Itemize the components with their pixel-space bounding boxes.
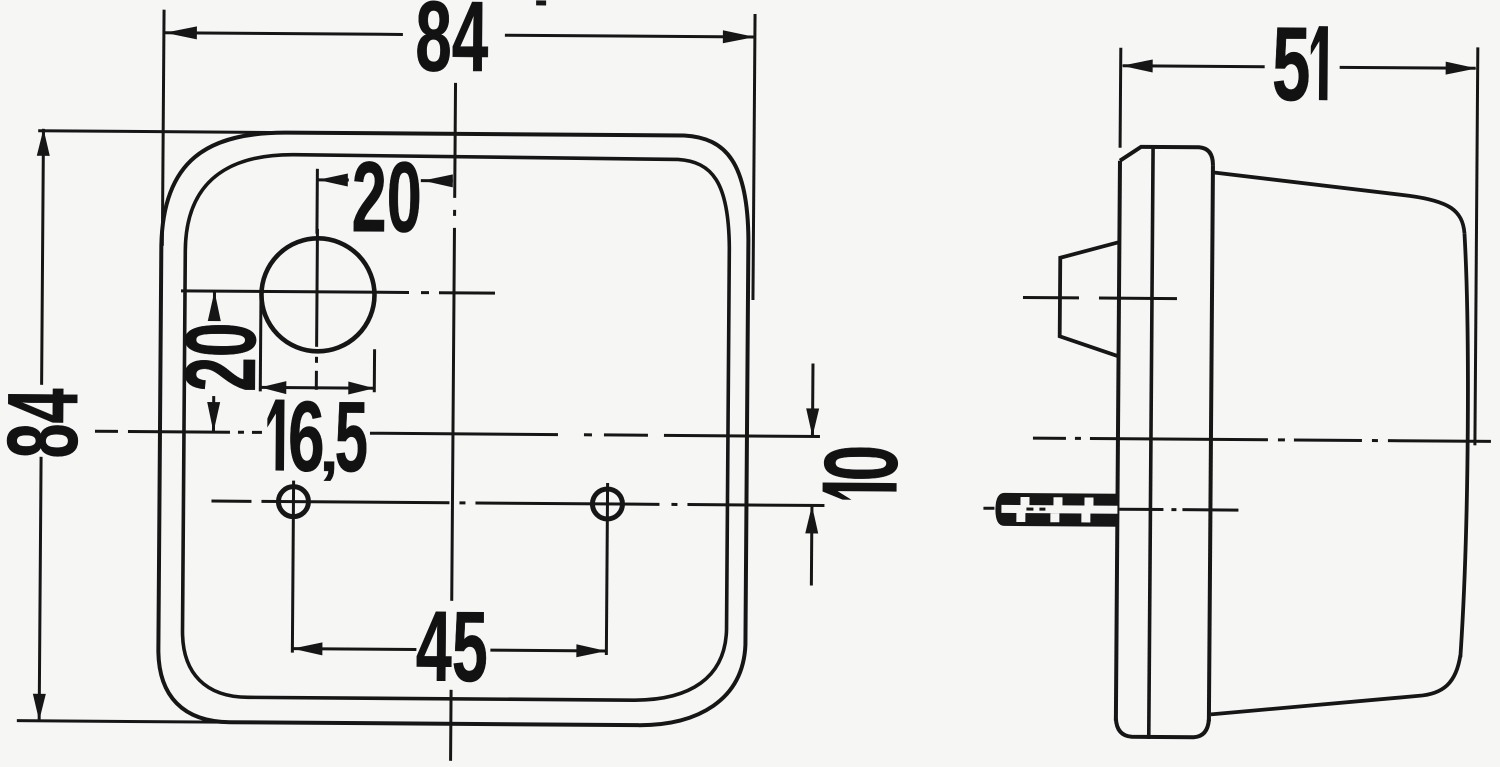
dimension 20 horizontal: extension line xyxy=(315,169,318,234)
dimension 45: dimension line xyxy=(292,649,606,651)
dimension 51: left extension line xyxy=(1119,48,1123,148)
side view main horizontal centerline xyxy=(1033,438,1491,441)
svg-text:5: 5 xyxy=(334,381,368,493)
lamp front view: outer lens outline xyxy=(158,132,749,726)
front view vertical centerline xyxy=(451,83,456,761)
dimension 20 horizontal: dimension line xyxy=(318,178,453,182)
side view: housing/lens joint vertical line xyxy=(1209,165,1213,721)
side view: plate top chamfer and top edge xyxy=(1120,147,1213,166)
stud thread white notch top 3 xyxy=(1084,497,1093,506)
bulb hole circle xyxy=(261,238,375,352)
dimension 51: dimension line xyxy=(1123,66,1476,69)
screw holes horizontal centerline xyxy=(211,501,824,505)
dimension 20 vertical: dimension line xyxy=(213,291,214,432)
side view: mounting plate back edge xyxy=(1116,161,1120,721)
dimension 20 vertical: up arrow xyxy=(208,291,221,321)
svg-text:0: 0 xyxy=(803,444,919,481)
side view: lens front face xyxy=(1460,233,1469,657)
stud thread white notch bottom 3 xyxy=(1081,513,1090,522)
side view: bulb holder centerline xyxy=(1023,297,1177,298)
bulb hole vertical centerline xyxy=(316,229,317,390)
dimension 84 top: left arrow xyxy=(165,26,197,39)
left screw hole xyxy=(278,487,308,517)
svg-text:84: 84 xyxy=(415,0,489,93)
front view horizontal centerline xyxy=(95,431,820,436)
dimension 51: left arrow xyxy=(1122,59,1153,72)
dimension 10: lower dimension line xyxy=(810,505,814,585)
stray scan speck xyxy=(536,0,546,5)
svg-text:20: 20 xyxy=(351,141,422,254)
dimension 84 left: dimension line xyxy=(39,129,43,721)
side view: plate inner vertical line xyxy=(1149,147,1153,739)
dimension 84 left: top extension line xyxy=(38,131,302,133)
dimension 16,5: right extension line xyxy=(373,349,376,392)
lamp front view: inner lens outline xyxy=(182,154,730,701)
dimension 16,5: right arrow xyxy=(348,382,374,395)
dimension 10: down arrow xyxy=(806,408,819,436)
dimension 84 left: bottom extension line xyxy=(17,721,238,723)
right screw hole vertical line / 45 extension xyxy=(606,483,607,655)
right screw hole xyxy=(592,489,622,519)
svg-text:84: 84 xyxy=(0,388,99,459)
stud thread white notch bottom 2 xyxy=(1050,513,1059,522)
stud thread white notch bottom 1 xyxy=(1016,513,1025,522)
stud centerline black dashes inside band xyxy=(1026,508,1045,511)
stud thread white notch top 1 xyxy=(1020,497,1029,506)
dimension 10: text (rotated) xyxy=(803,444,919,500)
dimension 10: up arrow xyxy=(805,505,818,533)
dimension 84 top: right extension line xyxy=(753,14,755,300)
dimension 51: right arrow xyxy=(1446,62,1477,75)
side view: bulb holder trapezoid xyxy=(1060,242,1119,356)
side view: plate bottom edge xyxy=(1116,719,1209,738)
dimension 84 left: up arrow xyxy=(37,129,50,156)
stud thread white band xyxy=(1001,505,1117,514)
svg-text:45: 45 xyxy=(415,591,488,704)
dimension 84 top: left extension line xyxy=(162,10,164,246)
stud centerline right xyxy=(1119,508,1238,512)
dimension 45: left arrow xyxy=(292,642,322,655)
dimension 16,5: left extension line xyxy=(259,296,263,391)
dimension 45: right arrow xyxy=(576,644,606,657)
dimension 20 vertical: down arrow xyxy=(207,402,220,432)
dimension 10: upper dimension line xyxy=(811,363,815,436)
dimension 20 horizontal: right arrow xyxy=(423,174,453,187)
side view: lens top edge xyxy=(1212,172,1464,233)
dimension 84 top: right arrow xyxy=(723,30,755,43)
svg-text:5: 5 xyxy=(1272,4,1311,122)
side view: lens bottom edge xyxy=(1211,653,1460,716)
dimension 84 top: dimension line xyxy=(165,33,755,37)
dimension 16,5: text xyxy=(267,399,285,470)
dimension 16,5: left arrow xyxy=(260,381,286,394)
bulb hole horizontal centerline xyxy=(181,291,495,293)
stud thread white notch top 2 xyxy=(1053,497,1062,506)
dimension 84 left: down arrow xyxy=(33,694,46,721)
dimension 51: right extension line xyxy=(1475,47,1478,445)
left screw hole vertical line / 45 extension xyxy=(292,481,293,653)
side view: threaded mounting stud xyxy=(995,493,1117,527)
dimension 20 horizontal: left arrow xyxy=(318,173,348,186)
stud centerline left xyxy=(983,507,994,510)
dimension 16,5: dimension line xyxy=(260,386,374,390)
